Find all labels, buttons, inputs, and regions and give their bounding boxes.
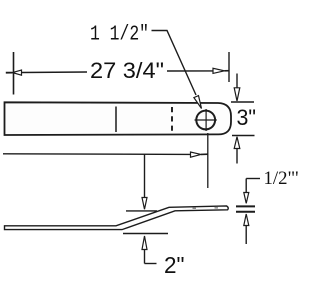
svg-text:1 1/2": 1 1/2" — [90, 24, 149, 47]
dim 3: upper arrowhead (down) — [234, 88, 240, 101]
dim 27 3/4: left extension line — [13, 52, 15, 95]
dim 27 3/4: right arrowhead — [213, 68, 225, 73]
dim 2: down arrowhead — [142, 198, 147, 210]
dim 2: elbow to text — [145, 263, 157, 265]
bend reference line — [115, 107, 117, 133]
dim 1/2: bottom witness line — [236, 211, 255, 213]
side view: bent blade outline — [5, 206, 229, 230]
hole crosshair vertical — [205, 109, 207, 131]
dim 27 3/4: right extension line — [228, 52, 230, 82]
dim 1/2: down arrowhead — [244, 193, 249, 204]
dim 3: top witness line — [231, 101, 254, 103]
dim 2: up arrow stem — [144, 250, 146, 264]
dim 3: upper arrow stem — [236, 74, 238, 88]
top view: flat bar outline — [5, 102, 232, 135]
dim 1/2: top witness line — [236, 205, 255, 207]
hole crosshair horizontal — [195, 119, 217, 121]
dim 3: bottom witness line — [232, 135, 255, 137]
datum dimension arrowhead (right) — [191, 152, 202, 157]
hole — [196, 111, 215, 130]
dim 1/2: down arrow stem — [245, 179, 247, 193]
leader from 1 1/2" to hole — [152, 31, 197, 96]
dim 27 3/4: dimension line left segment — [22, 71, 88, 74]
dim 27 3/4: left arrow tip tail — [6, 72, 13, 74]
hidden hole centerline (dashed) — [171, 107, 173, 132]
dim 3: lower arrow stem — [236, 149, 238, 164]
dim 1/2: up arrow stem — [245, 226, 247, 245]
svg-text:3": 3" — [237, 105, 257, 130]
dim 1/2: leader elbow — [246, 178, 260, 180]
datum arrow tip tail to extension line — [201, 153, 208, 155]
dim 3: lower arrowhead (up) — [234, 137, 240, 149]
datum dimension line to hole center — [3, 153, 191, 156]
dim 2: upper witness line — [126, 210, 157, 212]
dim 2: lower witness line — [123, 233, 168, 235]
dim 1/2: up arrowhead — [244, 214, 249, 226]
leader arrowhead — [194, 96, 202, 109]
svg-text:1/2"': 1/2"' — [264, 168, 299, 189]
dim 27 3/4: left arrowhead — [13, 70, 22, 75]
dim 2: up arrowhead — [142, 236, 147, 250]
dim 2: down arrow stem — [144, 155, 146, 198]
blade surface tick marks — [193, 207, 197, 209]
dim 27 3/4: dimension line right segment — [167, 70, 214, 72]
extension line from hole center down to datum dimension — [207, 133, 209, 188]
svg-text:27 3/4": 27 3/4" — [90, 58, 164, 83]
dim 27 3/4: arrow tip tail to extension line — [225, 70, 230, 72]
svg-text:2": 2" — [164, 252, 185, 278]
